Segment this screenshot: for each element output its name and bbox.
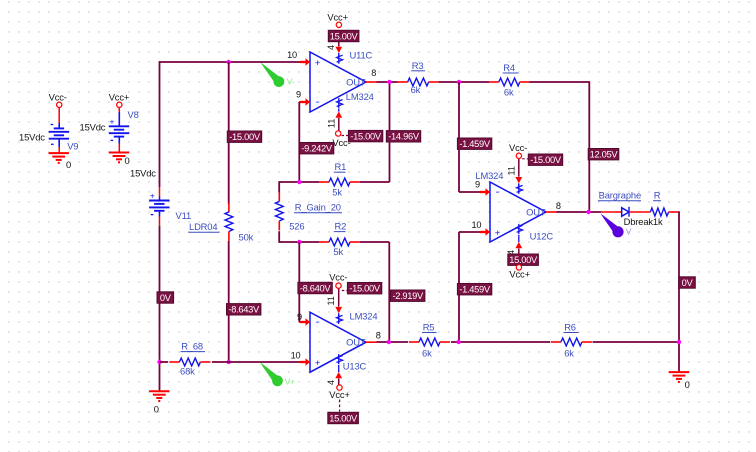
resistor R_Gain_20 526 — [275, 192, 283, 231]
probe V (purple, output) — [601, 214, 624, 238]
svg-text:9: 9 — [297, 312, 302, 322]
wire out to R5 — [377, 341, 409, 343]
svg-text:U11C: U11C — [350, 49, 373, 60]
svg-text:6k: 6k — [422, 347, 432, 358]
ground label 0 (V9) — [66, 159, 71, 170]
value label 5k (R2) — [333, 246, 343, 257]
svg-text:U12C: U12C — [530, 231, 554, 242]
wire U12C pin9 feed — [459, 82, 481, 192]
value label 6k (R4) — [504, 86, 514, 97]
ref label R_68 — [181, 341, 206, 352]
node Vcc- bubble (V9) — [57, 102, 62, 123]
plus sign U12C — [495, 228, 500, 238]
value label LM324 (U11C) — [346, 91, 374, 102]
diode Bargraphe anode lead — [601, 211, 622, 213]
wire output to R3 — [377, 81, 398, 83]
svg-text:+: + — [315, 358, 320, 368]
svg-text:0: 0 — [154, 404, 159, 415]
diode cathode lead — [629, 211, 650, 213]
supply pin V+ U11C — [335, 30, 342, 64]
node Vcc- bubble (U13C) — [336, 283, 341, 288]
pin number 4 rotated (U13C) — [326, 380, 336, 385]
pin9 wire from R1 row — [299, 102, 300, 182]
svg-text:+: + — [495, 228, 500, 238]
svg-text:8: 8 — [371, 68, 376, 78]
ground 0 (V9) — [49, 153, 69, 163]
svg-text:5k: 5k — [332, 186, 342, 197]
ref label R5 — [422, 322, 437, 333]
wire right column down — [678, 211, 680, 372]
wire R5-R6 — [451, 341, 550, 343]
svg-text:Bargraphe: Bargraphe — [599, 190, 641, 201]
bias label -9.242V — [299, 143, 333, 154]
net label Vcc+ (U12C) — [509, 269, 530, 280]
ref label Bargraphe — [598, 190, 641, 201]
probe label V+ — [285, 377, 296, 387]
bias label 0V (right) — [679, 277, 696, 288]
probe V- (green, U11C input) — [260, 62, 284, 87]
bias label -15.00V (U12C) — [528, 154, 562, 165]
ground 0 (V8) — [109, 153, 129, 163]
wire U12C pin10 feed — [459, 232, 481, 342]
resistor R (small zigzag) — [650, 208, 668, 216]
svg-text:Vcc-: Vcc- — [329, 271, 347, 282]
ref label R1 — [334, 161, 346, 172]
svg-text:10: 10 — [471, 220, 481, 230]
ref label V11 — [176, 210, 192, 221]
junction R2 row / pin9 column — [297, 240, 301, 244]
wire R_Gain column — [278, 181, 280, 243]
resistor R3 6k — [398, 78, 439, 86]
svg-text:526: 526 — [289, 221, 304, 232]
junction right column / R6 row — [677, 340, 681, 344]
svg-text:OUT: OUT — [346, 337, 366, 348]
svg-text:8: 8 — [376, 330, 381, 340]
svg-text:R_68: R_68 — [181, 341, 203, 352]
pin number 4 rotated (U12C) — [506, 250, 516, 255]
wire R1 row — [279, 181, 389, 183]
pin number 11 rotated (U12C) — [507, 166, 517, 175]
svg-text:15.00V: 15.00V — [329, 413, 358, 423]
op-amp U12C — [490, 182, 546, 242]
pin number 4 rotated (U11C) — [326, 45, 336, 50]
U12C output pin 8 — [546, 211, 557, 213]
dc source V8 battery — [109, 112, 129, 153]
probe label V- — [287, 77, 295, 87]
svg-text:OUT: OUT — [346, 77, 366, 88]
resistor R1 5k — [319, 178, 360, 186]
supply pin V+ U13C — [335, 354, 342, 385]
svg-text:-15.00V: -15.00V — [229, 132, 261, 142]
U11C output pin 8 — [366, 81, 377, 83]
svg-text:15.00V: 15.00V — [509, 255, 538, 265]
node Vcc- bubble (U11C) — [336, 131, 341, 136]
pin10 input U13C — [300, 358, 310, 365]
label OUT U12C — [526, 207, 546, 218]
ref label R2 — [334, 221, 346, 232]
dc source V9 battery — [49, 123, 69, 153]
supply pin V+ U12C — [515, 224, 522, 265]
wire out to diode node — [557, 211, 602, 213]
svg-text:6k: 6k — [564, 347, 574, 358]
ref label U13C — [343, 361, 367, 372]
junction U12C out / R4 column — [586, 210, 590, 214]
junction left column / R_68 — [157, 360, 161, 364]
pin9 input U11C — [300, 98, 310, 105]
ground 0 (left) — [149, 391, 169, 401]
svg-text:Vcc-: Vcc- — [509, 142, 527, 153]
svg-text:Vcc+: Vcc+ — [327, 12, 348, 23]
ref label U11C — [350, 49, 373, 60]
svg-text:50k: 50k — [239, 232, 254, 243]
minus sign U11C — [316, 96, 320, 108]
value label Dbreak1k — [624, 216, 663, 227]
pin number 11 rotated (U11C) — [327, 119, 337, 128]
resistor R2 5k — [319, 238, 360, 246]
svg-text:11: 11 — [507, 166, 517, 175]
junction R3/R4 node — [457, 80, 461, 84]
supply pin V- U13C — [335, 289, 342, 324]
net label Vcc+ (U11C) — [327, 12, 348, 23]
bias label 15.00V (U13C bottom) — [328, 412, 359, 423]
pin number 10 (U12C) — [471, 220, 481, 230]
dash link to bias (U11C) — [342, 135, 349, 137]
junction R5/mid column — [456, 340, 460, 344]
dc source V11 battery — [149, 187, 169, 226]
supply pin V- U11C — [335, 98, 342, 131]
dash link to bias (U13C) — [342, 290, 348, 292]
svg-text:-8.640V: -8.640V — [300, 283, 332, 293]
value label 6k (R5) — [422, 347, 432, 358]
svg-text:Vcc-: Vcc- — [49, 92, 67, 103]
svg-text:-15.00V: -15.00V — [350, 132, 382, 142]
svg-text:V8: V8 — [128, 109, 139, 120]
resistor R right lead — [669, 211, 679, 213]
svg-text:9: 9 — [296, 90, 301, 100]
svg-text:V+: V+ — [285, 377, 296, 387]
svg-text:0V: 0V — [682, 278, 694, 288]
svg-text:10: 10 — [287, 50, 297, 60]
svg-text:LM324: LM324 — [346, 91, 374, 102]
svg-text:5k: 5k — [333, 246, 343, 257]
node Vcc+ bubble (U11C) — [336, 22, 341, 27]
svg-text:-15.00V: -15.00V — [530, 155, 562, 165]
svg-text:11: 11 — [326, 296, 336, 305]
svg-text:-8.643V: -8.643V — [228, 305, 260, 315]
op-amp U11C — [310, 52, 366, 112]
svg-text:0: 0 — [125, 155, 130, 166]
ground label 0 (left) — [154, 404, 159, 415]
svg-text:V11: V11 — [176, 210, 192, 221]
pin10 input U12C — [480, 228, 490, 235]
svg-text:8: 8 — [556, 201, 561, 211]
node Vcc- bubble (U12C) — [516, 153, 521, 158]
svg-text:R4: R4 — [503, 62, 515, 73]
node Vcc+ bubble (U12C) — [516, 265, 521, 270]
wire U11C feedback column — [389, 81, 391, 182]
value label 15Vdc (V8) — [80, 122, 106, 133]
pin number 11 rotated (U13C) — [326, 296, 336, 305]
ref label V9 — [67, 141, 78, 152]
value label 526 — [289, 221, 304, 232]
ground label 0 (right) — [685, 379, 690, 390]
node Vcc+ bubble (V8) — [117, 102, 122, 112]
svg-text:V9: V9 — [67, 141, 78, 152]
probe V+ (green, U13C input) — [260, 362, 283, 386]
wire R_68 row — [160, 361, 301, 363]
junction U13C out node — [387, 340, 391, 344]
ref label LDR04 — [188, 221, 219, 232]
svg-text:R1: R1 — [335, 161, 347, 172]
svg-text:U13C: U13C — [343, 361, 367, 372]
pin number 9 (U11C) — [296, 90, 301, 100]
wire 50k column lower — [228, 241, 230, 362]
pin number 10 (U11C) — [287, 50, 297, 60]
resistor R6 6k — [551, 338, 592, 346]
wire left column upper (to V11) — [159, 61, 161, 187]
ground label 0 (V8) — [125, 155, 130, 166]
junction R1 row / pin9 column — [297, 180, 301, 184]
svg-text:R_Gain_20: R_Gain_20 — [295, 202, 341, 213]
svg-text:12.05V: 12.05V — [590, 150, 619, 160]
pin10 input U11C — [300, 58, 310, 65]
resistor R5 6k — [409, 338, 450, 346]
label OUT U11C — [346, 77, 366, 88]
svg-text:+: + — [150, 191, 155, 201]
supply pin V- U12C — [515, 159, 522, 194]
value label 15Vdc (V9) — [19, 132, 45, 143]
svg-text:4: 4 — [326, 380, 336, 385]
svg-text:-1.459V: -1.459V — [459, 285, 491, 295]
svg-text:+: + — [315, 58, 320, 68]
junction at 50k column top — [227, 60, 231, 64]
svg-text:0V: 0V — [160, 293, 172, 303]
svg-text:11: 11 — [327, 119, 337, 128]
pin9 input U12C — [480, 188, 490, 195]
wire U13C input column upper — [388, 242, 390, 342]
wire top row to U11C pin10 — [160, 61, 301, 63]
bias label -8.643V — [227, 304, 261, 315]
junction 50k column / R_68 row — [227, 360, 231, 364]
plus sign U11C — [315, 58, 320, 68]
wire left column lower (V11 to ground) — [159, 226, 161, 391]
wire R4 to right column — [530, 81, 590, 212]
svg-text:-14.96V: -14.96V — [388, 132, 420, 142]
node Vcc+ bubble (U13C) — [337, 385, 342, 390]
bias label 12.05V (right column) — [588, 149, 619, 160]
svg-text:-15.00V: -15.00V — [349, 284, 381, 294]
bias label 0V (left column) — [157, 292, 174, 303]
svg-text:Vcc+: Vcc+ — [329, 389, 350, 400]
ref label R6 — [564, 322, 579, 333]
pin number 8 (U12C) — [556, 201, 561, 211]
svg-text:15.00V: 15.00V — [330, 31, 359, 41]
svg-text:R5: R5 — [423, 322, 435, 333]
svg-text:Vcc+: Vcc+ — [109, 92, 130, 103]
value label LM324 (U13C) — [350, 311, 378, 322]
bias label -15.00V (50k column) — [227, 131, 261, 142]
pin9 wire from R2 row — [299, 242, 300, 322]
bias label -1.459V (bottom) — [457, 284, 491, 295]
wire R3-R4 — [439, 81, 490, 83]
probe label V (purple) — [626, 226, 632, 236]
wire 50k column upper — [228, 62, 230, 204]
net label Vcc- (U13C) — [329, 271, 347, 282]
dash link to bias below (U13C) — [339, 400, 341, 412]
svg-text:OUT: OUT — [526, 207, 546, 218]
svg-text:R: R — [654, 190, 661, 201]
bias label -1.459V (top) — [457, 138, 491, 149]
svg-text:6k: 6k — [411, 84, 421, 95]
svg-text:Vcc-: Vcc- — [332, 137, 350, 148]
ref label R3 — [411, 60, 425, 71]
svg-text:15Vdc: 15Vdc — [130, 167, 156, 178]
minus sign U13C — [316, 316, 320, 328]
bias label -15.00V (U13C) — [347, 283, 381, 294]
svg-text:LM324: LM324 — [350, 311, 378, 322]
svg-text:15Vdc: 15Vdc — [80, 122, 106, 133]
svg-text:9: 9 — [475, 179, 480, 189]
net label Vcc- (U12C) — [509, 142, 527, 153]
pin9 input U13C — [300, 318, 310, 325]
wire R6 to right ground column — [593, 341, 680, 343]
ref label R_Gain_20 — [294, 202, 342, 213]
value label 6k (R3) — [411, 84, 421, 95]
resistor R4 6k — [489, 78, 530, 86]
pin number 9 (U13C) — [297, 312, 302, 322]
net label Vcc+ — [109, 92, 130, 103]
op-amp U13C — [310, 312, 366, 372]
resistor R_68 68k — [169, 358, 210, 366]
svg-text:-9.242V: -9.242V — [301, 144, 333, 154]
junction U11C out / feedback — [387, 80, 391, 84]
ref label R (output resistor) — [653, 190, 661, 201]
label OUT U13C — [346, 337, 366, 348]
value label 6k (R6) — [564, 347, 574, 358]
net label Vcc+ (U13C) — [329, 389, 350, 400]
svg-text:0: 0 — [685, 379, 690, 390]
svg-text:10: 10 — [291, 351, 301, 361]
svg-text:R2: R2 — [335, 221, 347, 232]
svg-text:V-: V- — [287, 77, 295, 87]
pin number 8 (U11C) — [371, 68, 376, 78]
bias label -8.640V — [298, 282, 332, 293]
svg-text:R3: R3 — [412, 60, 424, 71]
ref label V8 — [128, 109, 139, 120]
plus sign U13C — [315, 358, 320, 368]
dash link to bias (U12C) — [522, 158, 528, 160]
svg-text:4: 4 — [326, 45, 336, 50]
value label 50k — [239, 232, 254, 243]
svg-text:LDR04: LDR04 — [189, 221, 217, 232]
ground 0 (right) — [669, 372, 689, 382]
value label LM324 (U12C) — [475, 170, 503, 181]
svg-text:-2.919V: -2.919V — [392, 291, 424, 301]
bias label 15.00V (U12C bottom) — [508, 254, 539, 265]
minus sign U12C — [496, 186, 500, 198]
svg-text:+: + — [110, 116, 115, 126]
ref label U12C — [530, 231, 554, 242]
resistor LDR04 50k — [225, 202, 233, 241]
bias label -15.00V (U11C) — [348, 130, 382, 141]
svg-text:15Vdc: 15Vdc — [19, 132, 45, 143]
value label 5k (R1) — [332, 186, 342, 197]
bias label 15.00V (U11C top) — [328, 30, 359, 41]
net label Vcc- — [49, 92, 67, 103]
svg-text:68k: 68k — [180, 366, 195, 377]
svg-text:Vcc+: Vcc+ — [509, 269, 530, 280]
wire R2 row — [279, 241, 389, 243]
value label 15Vdc (V11) — [130, 167, 156, 178]
svg-text:-1.459V: -1.459V — [459, 139, 491, 149]
U13C output pin 8 — [366, 341, 377, 343]
net label Vcc- (U11C) — [332, 137, 350, 148]
svg-text:6k: 6k — [504, 86, 514, 97]
ref label R4 — [503, 62, 519, 73]
svg-text:R6: R6 — [564, 322, 576, 333]
diode Bargraphe — [622, 207, 629, 217]
value label 68k — [180, 366, 195, 377]
pin number 10 (U13C) — [291, 351, 301, 361]
svg-text:V: V — [626, 226, 632, 236]
bias label -2.919V — [391, 290, 425, 301]
pin number 9 (U12C) — [475, 179, 480, 189]
svg-text:0: 0 — [66, 159, 71, 170]
pin number 8 (U13C) — [376, 330, 381, 340]
bias label -14.96V — [386, 131, 420, 142]
